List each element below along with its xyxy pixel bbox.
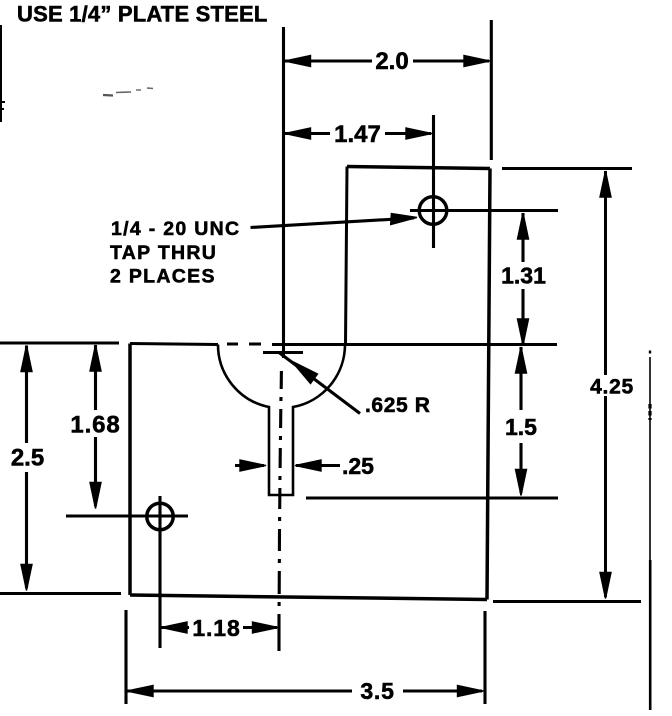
stray smudge marks — [103, 94, 113, 97]
left border artifact — [0, 25, 2, 122]
dimension 1.47: left arrowhead — [285, 128, 311, 139]
svg-text:.625 R: .625 R — [365, 394, 430, 417]
dimension 1.31: lower arrowhead — [518, 319, 529, 345]
dimension 1.31: upper arrowhead — [518, 213, 529, 239]
svg-text:.25: .25 — [342, 453, 374, 479]
notch center mark horizontal — [263, 351, 303, 354]
dimension 1.68: upper shaft — [94, 345, 97, 410]
top hole horizontal centerline — [410, 209, 558, 212]
dimension 1.68: upper arrowhead — [90, 345, 101, 371]
lower hole vertical centerline — [158, 496, 161, 648]
svg-text:1/4 - 20 UNC: 1/4 - 20 UNC — [111, 218, 240, 240]
svg-text:1.31: 1.31 — [501, 263, 546, 289]
top tapped hole — [419, 197, 447, 225]
svg-text:TAP THRU: TAP THRU — [110, 242, 217, 264]
dimension 2.0: left extension line / upper centerline — [282, 27, 285, 358]
dimension .25: right arrowhead pointing left — [295, 460, 321, 471]
svg-text:USE 1/4” PLATE STEEL: USE 1/4” PLATE STEEL — [17, 2, 268, 27]
dimension .25: left arrow shaft — [235, 464, 264, 467]
dimension 4.25: upper shaft — [604, 171, 607, 375]
dimension 1.31: upper shaft — [521, 213, 524, 262]
dimension 1.5: lower arrowhead — [516, 470, 527, 496]
dimension 4.25: bottom extension line — [493, 600, 641, 603]
leader arrowhead at top hole — [391, 214, 417, 225]
part outline: left edge of lower body — [128, 344, 132, 596]
notch .625R keyhole cutout — [218, 345, 345, 496]
dimension 2.5: top extension line — [0, 342, 119, 345]
part outline: tab left edge — [346, 167, 348, 345]
dimension 1.18: shafts — [161, 626, 277, 629]
dashes on notch line — [227, 343, 261, 346]
dimension 1.5: lower shaft — [519, 443, 522, 493]
right scan artifact line — [649, 357, 651, 710]
dimension 1.5: upper shaft — [519, 347, 522, 410]
dimension 4.25: upper arrowhead — [600, 171, 611, 197]
leader .625 R shaft — [279, 353, 360, 414]
dimension 4.25: lower shaft — [604, 396, 607, 597]
dimension 3.5: dimension line — [127, 690, 482, 693]
dimension 2.5: lower shaft — [25, 472, 28, 588]
dimension 1.68: lower arrowhead — [90, 483, 101, 509]
part outline: bottom edge — [130, 595, 487, 600]
notch lower dash-dot centerline — [279, 371, 281, 651]
dimension .25: left arrowhead pointing right — [240, 460, 266, 471]
dimension 4.25: top extension line — [502, 167, 632, 170]
dimension 3.5: left arrowhead — [127, 686, 153, 697]
dimension 2.5: upper arrowhead — [21, 346, 32, 372]
part outline: body top edge left of notch — [130, 344, 218, 345]
dimension 2.0: dimension line — [285, 59, 489, 62]
lower tapped hole — [147, 503, 173, 529]
svg-text:1.18: 1.18 — [192, 615, 240, 641]
leader line from note to top hole — [251, 218, 415, 228]
dimension 3.5: right extension line — [483, 611, 486, 704]
dimension 1.18: left arrowhead — [161, 622, 187, 633]
dimension 1.31: lower shaft — [521, 289, 524, 343]
dimension 4.25: lower arrowhead — [600, 573, 611, 599]
svg-text:1.68: 1.68 — [70, 412, 120, 439]
svg-text:2 PLACES: 2 PLACES — [110, 266, 216, 288]
top hole vertical centerline — [432, 115, 435, 248]
lower hole horizontal centerline — [66, 514, 188, 517]
dimension 1.47: right arrowhead — [406, 128, 432, 139]
dimension 1.18: right arrowhead — [253, 622, 279, 633]
part outline: tab top edge — [347, 167, 490, 169]
dimension 2.0: right arrowhead — [464, 56, 490, 67]
dimension 2.0: left arrowhead — [285, 56, 311, 67]
dimension 2.5: upper shaft — [25, 346, 28, 444]
svg-text:1.5: 1.5 — [505, 414, 537, 440]
svg-text:3.5: 3.5 — [360, 678, 394, 704]
dimension 1.68: lower shaft — [94, 437, 97, 506]
dimension 2.5: lower arrowhead — [21, 565, 32, 591]
dimension 3.5: right arrowhead — [458, 686, 484, 697]
dimension 2.5: bottom extension line — [0, 592, 121, 595]
svg-text:1.47: 1.47 — [334, 121, 381, 148]
dimension .25: right arrow shaft — [296, 464, 340, 467]
extension line at slot bottom level — [306, 497, 558, 500]
svg-text:2.0: 2.0 — [375, 48, 408, 75]
horizontal reference line at y=344.5 across notch and tab — [272, 343, 557, 346]
dimension 1.5: upper arrowhead — [516, 347, 527, 373]
dimension 1.47: dimension line — [285, 132, 431, 135]
dimension 2.0: right extension line — [490, 20, 493, 160]
part outline: right edge — [487, 169, 490, 600]
dimension 3.5: left extension line — [124, 610, 127, 704]
leader .625 R arrowhead — [292, 361, 318, 384]
svg-text:4.25: 4.25 — [590, 376, 634, 399]
svg-text:2.5: 2.5 — [11, 445, 44, 472]
